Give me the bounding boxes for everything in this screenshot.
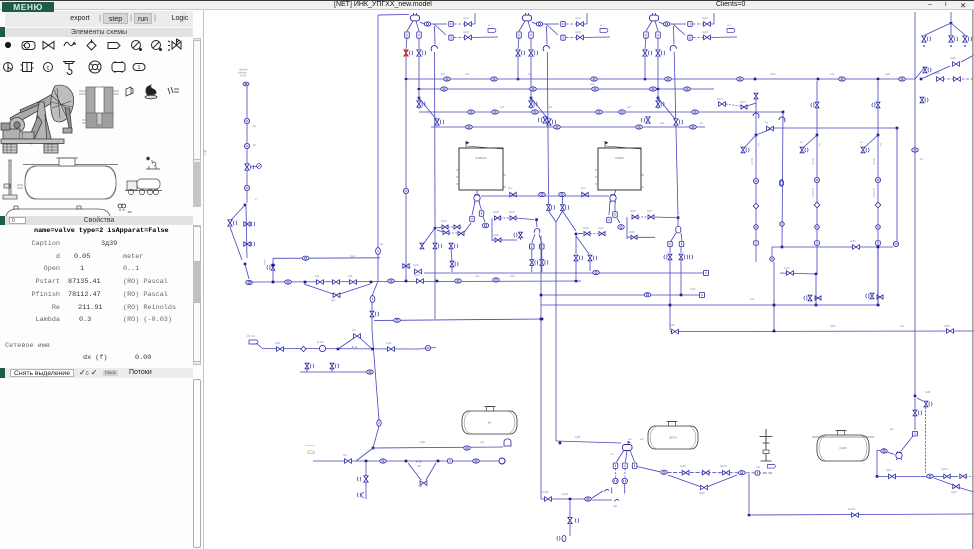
svg-text:кж: кж [700, 122, 703, 125]
svg-text:пом: пом [830, 73, 835, 76]
svg-text:СДВ 4: СДВ 4 [263, 259, 265, 266]
svg-text:3д110: 3д110 [542, 491, 549, 494]
svg-text:3д41: 3д41 [463, 16, 469, 20]
svg-text:Rp97: Rp97 [598, 227, 604, 230]
svg-text:ки: ки [800, 141, 803, 144]
svg-text:3д80: 3д80 [275, 342, 281, 345]
svg-text:3д1: 3д1 [352, 329, 357, 332]
svg-text:3д71: 3д71 [784, 267, 790, 270]
svg-text:н90: н90 [417, 465, 422, 468]
svg-text:P-и: P-и [879, 143, 882, 147]
svg-text:Ж-СООТ: Ж-СООТ [872, 188, 874, 198]
svg-text:м-301: м-301 [240, 75, 247, 78]
svg-text:3д3: 3д3 [348, 275, 353, 278]
svg-text:3д96: 3д96 [669, 324, 675, 327]
svg-text:БРС: БРС [488, 25, 493, 27]
svg-text:пом: пом [900, 325, 905, 328]
svg-text:пом: пом [548, 106, 553, 109]
svg-text:3д91: 3д91 [950, 56, 956, 60]
svg-text:Rp98: Rp98 [629, 231, 635, 234]
svg-text:3д6: 3д6 [660, 122, 665, 125]
svg-text:Rp77: Rp77 [647, 210, 653, 213]
svg-text:3д41: 3д41 [575, 16, 581, 20]
svg-text:з: з [410, 266, 411, 269]
svg-text:И-100: И-100 [317, 341, 324, 344]
svg-text:исп: исп [640, 438, 645, 441]
svg-text:3д95: 3д95 [925, 391, 931, 394]
svg-text:P-и: P-и [757, 143, 760, 147]
svg-text:3д: 3д [765, 121, 768, 124]
svg-text:дж: дж [380, 243, 383, 246]
svg-text:3д92: 3д92 [934, 71, 940, 75]
svg-text:ЖСПГ: ЖСПГ [750, 158, 752, 165]
svg-text:3д11: 3д11 [510, 275, 516, 278]
svg-text:ж1: ж1 [488, 421, 492, 425]
svg-text:пом: пом [750, 298, 755, 301]
svg-text:3д9: 3д9 [418, 485, 423, 488]
svg-text:P-d: P-d [352, 345, 357, 349]
svg-text:3д111: 3д111 [562, 493, 569, 496]
svg-text:3д10: 3д10 [414, 274, 420, 277]
svg-text:3д93: 3д93 [951, 491, 957, 494]
svg-text:3д4: 3д4 [331, 299, 336, 302]
svg-text:3д60: 3д60 [944, 325, 950, 328]
svg-text:н90: н90 [613, 505, 618, 508]
svg-text:3д85: 3д85 [575, 436, 581, 439]
svg-text:пом: пом [465, 73, 470, 76]
svg-text:3д43: 3д43 [575, 30, 581, 34]
svg-text:пом: пом [590, 83, 595, 86]
svg-text:3д1: 3д1 [441, 73, 446, 76]
svg-text:игл: игл [610, 453, 614, 456]
svg-text:3д41: 3д41 [702, 16, 708, 20]
svg-text:БРС: БРС [600, 25, 605, 27]
svg-text:пом: пом [475, 275, 480, 278]
svg-text:Rp96: Rp96 [583, 227, 589, 230]
svg-text:МС 101: МС 101 [247, 336, 256, 338]
svg-text:м-промыс: м-промыс [305, 445, 316, 447]
svg-text:БРС: БРС [727, 25, 732, 27]
svg-text:И-301/1: И-301/1 [476, 156, 487, 160]
svg-text:Зк 2: Зк 2 [581, 187, 586, 190]
svg-text:Rp3м: Rp3м [441, 226, 447, 229]
svg-text:P-и: P-и [818, 143, 821, 147]
svg-text:пов: пов [756, 466, 761, 469]
svg-text:Rp79: Rp79 [717, 98, 723, 101]
svg-text:3д80: 3д80 [420, 441, 426, 444]
svg-text:3д48: 3д48 [690, 288, 696, 291]
svg-text:3д89: 3д89 [699, 492, 705, 495]
svg-text:3д59: 3д59 [830, 325, 836, 328]
svg-text:Rp23: Rp23 [509, 211, 515, 214]
svg-text:Gп: Gп [920, 158, 924, 161]
svg-text:3д99: 3д99 [386, 342, 392, 345]
svg-text:3к1: 3к1 [500, 106, 504, 109]
svg-text:3д88: 3д88 [680, 465, 686, 468]
svg-text:3д52: 3д52 [885, 73, 891, 76]
svg-text:ЖСПГ: ЖСПГ [811, 158, 813, 165]
svg-text:3д70: 3д70 [413, 264, 419, 267]
svg-text:3д43: 3д43 [463, 30, 469, 34]
svg-text:Rp99: Rp99 [493, 234, 499, 237]
svg-text:Дп: Дп [253, 125, 257, 128]
svg-text:И-302: И-302 [615, 156, 623, 160]
svg-text:Дп: Дп [253, 144, 257, 147]
svg-text:3д5: 3д5 [528, 73, 533, 76]
svg-text:3д51: 3д51 [850, 240, 856, 243]
svg-text:P-d: P-d [416, 460, 422, 464]
svg-text:3к2: 3к2 [627, 106, 631, 109]
svg-text:ЖСПГ: ЖСПГ [872, 158, 874, 165]
svg-text:3д101: 3д101 [720, 465, 728, 468]
svg-text:ки: ки [860, 141, 863, 144]
svg-text:Rp98: Rp98 [493, 211, 499, 214]
svg-text:3д2: 3д2 [315, 275, 320, 278]
svg-text:Rp79: Rp79 [740, 101, 746, 104]
svg-text:3д43: 3д43 [702, 30, 708, 34]
svg-text:3д104: 3д104 [848, 508, 856, 511]
svg-text:ИСП-2: ИСП-2 [669, 436, 677, 440]
svg-text:3д97: 3д97 [886, 469, 892, 472]
svg-text:пом: пом [480, 441, 485, 444]
svg-text:Ж-СООТ: Ж-СООТ [811, 188, 813, 198]
svg-text:Rp78: Rp78 [630, 210, 636, 213]
svg-text:И-300: И-300 [839, 446, 847, 450]
svg-text:3д50: 3д50 [770, 73, 776, 76]
svg-text:Rp3в: Rp3в [456, 226, 462, 229]
svg-text:кт: кт [255, 198, 258, 201]
svg-text:квс: квс [890, 428, 894, 431]
svg-text:нас: нас [628, 438, 633, 441]
svg-text:3д101: 3д101 [941, 468, 949, 471]
svg-text:3д7: 3д7 [343, 454, 348, 457]
svg-text:3д12: 3д12 [350, 255, 356, 258]
svg-text:Зк 1: Зк 1 [508, 187, 513, 190]
svg-text:Rp21: Rp21 [441, 220, 447, 223]
